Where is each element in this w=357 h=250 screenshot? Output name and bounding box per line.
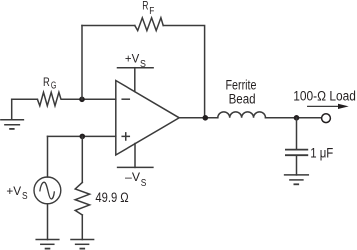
node (output / feedback junction) [203, 115, 209, 121]
-VS supply rail [118, 144, 153, 168]
svg-text:S: S [141, 178, 147, 189]
svg-text:–V: –V [125, 170, 141, 184]
resistor RF [135, 18, 163, 31]
resistor 49.9 ohm [75, 182, 89, 215]
source VS (sine) [34, 177, 61, 204]
node (load junction) [294, 115, 300, 121]
label Ferrite Bead [226, 78, 257, 107]
svg-text:S: S [22, 191, 28, 202]
capacitor 1 uF [286, 150, 307, 156]
wire (non-inverting input rail) [48, 135, 116, 137]
label RF [142, 0, 154, 17]
ground G1 (inverting input side) [1, 99, 24, 129]
wire (ground to RG) [12, 98, 38, 100]
svg-text:Bead: Bead [229, 91, 256, 106]
wire (down to source) [47, 136, 49, 177]
op-amp [116, 81, 179, 156]
wire (op-amp output to ferrite bead) [179, 117, 218, 119]
label +VS (source) [6, 184, 27, 202]
ground G3 (49.9 ohm) [71, 240, 94, 249]
svg-text:G: G [51, 80, 57, 92]
wire (junction down to 49.9 ohm resistor) [81, 136, 83, 182]
svg-text:+V: +V [125, 52, 140, 66]
ground G2 (source) [36, 240, 59, 249]
svg-text:Ferrite: Ferrite [226, 78, 257, 93]
wire (source to ground) [47, 204, 49, 240]
ground G4 (capacitor) [285, 175, 309, 184]
label +VS [125, 52, 146, 70]
svg-text:1 μF: 1 μF [310, 146, 333, 161]
svg-text:49.9 Ω: 49.9 Ω [95, 190, 128, 205]
terminal (open circle) [322, 114, 331, 123]
resistor RG [37, 92, 63, 106]
svg-text:+V: +V [6, 184, 22, 198]
wire (junction down to capacitor) [296, 118, 298, 149]
wire (capacitor to ground) [296, 156, 298, 175]
svg-text:F: F [149, 5, 154, 17]
wire (RG to op-amp inverting input) [63, 98, 116, 100]
wire (RF to output, with corner) [163, 26, 204, 118]
arrow (load current) [308, 104, 349, 109]
wire (resistor to ground) [81, 215, 83, 240]
label -VS [125, 170, 147, 189]
node B (non-inverting junction) [80, 134, 86, 140]
svg-text:100-Ω Load: 100-Ω Load [293, 88, 356, 103]
wire (ferrite bead to terminal) [266, 117, 322, 119]
node A (feedback junction) [79, 97, 85, 103]
label RG [43, 75, 56, 92]
wire (feedback riser) [81, 26, 83, 100]
svg-text:S: S [140, 59, 146, 70]
+VS supply rail [118, 68, 154, 92]
wire (top left of RF) [82, 25, 135, 27]
inductor (ferrite bead) [218, 112, 266, 118]
svg-text:R: R [43, 75, 50, 89]
svg-text:R: R [142, 0, 148, 13]
